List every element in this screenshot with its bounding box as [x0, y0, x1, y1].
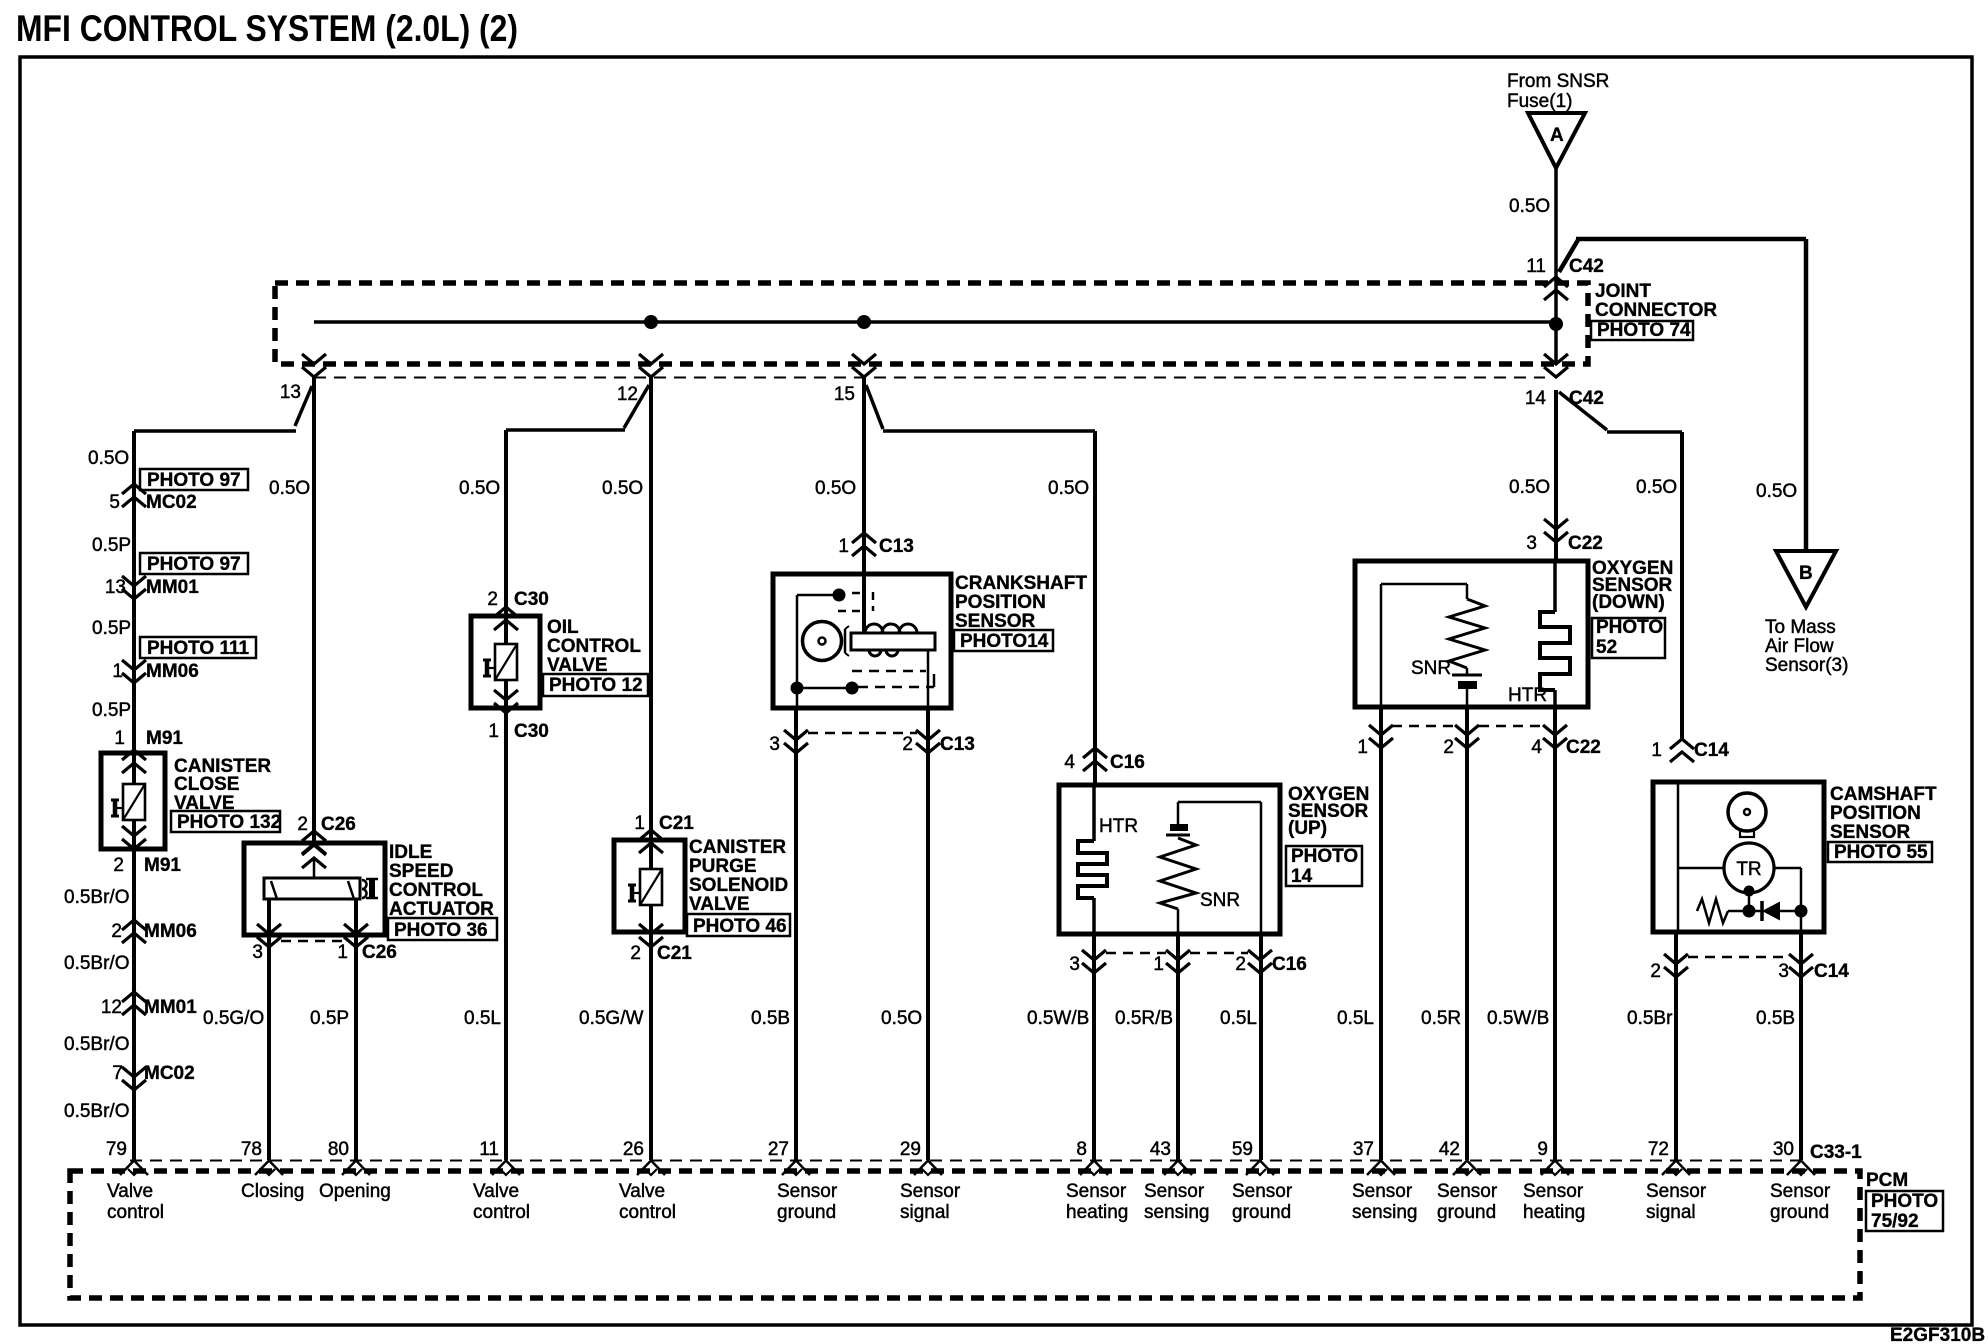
- oxygen sensor (up) box: [1059, 785, 1280, 934]
- svg-text:30: 30: [1773, 1139, 1794, 1160]
- wire pin 12 down to canister purge valve and PCM pin 26: [649, 377, 653, 1160]
- junction dot at pin 15 tap: [857, 315, 871, 329]
- svg-text:JOINT: JOINT: [1595, 281, 1651, 302]
- svg-text:72: 72: [1648, 1139, 1669, 1160]
- svg-text:CAMSHAFT: CAMSHAFT: [1830, 784, 1937, 805]
- wire C16 pin 2 to PCM pin 59: [1259, 934, 1263, 1160]
- connector MM06 pin 2: [111, 920, 196, 943]
- label 0.5O (oxygen down wire): [1509, 477, 1550, 498]
- svg-text:(DOWN): (DOWN): [1592, 592, 1665, 613]
- label 0.5W/B (oxygen down heater): [1487, 1008, 1549, 1029]
- svg-text:MM01: MM01: [146, 577, 199, 598]
- junction dot at C42 pin 11/14: [1549, 317, 1563, 331]
- connector pin 12: [617, 354, 663, 405]
- idle actuator inner chevron: [302, 845, 326, 868]
- svg-text:Sensor: Sensor: [777, 1181, 838, 1202]
- svg-text:IDLE: IDLE: [389, 842, 432, 863]
- svg-text:A: A: [1550, 125, 1564, 146]
- label 0.5L (oxygen up ground): [1220, 1008, 1257, 1029]
- svg-text:42: 42: [1439, 1139, 1460, 1160]
- wire from node A to connector C42 pin 11: [1554, 168, 1558, 364]
- svg-text:SENSOR: SENSOR: [1830, 822, 1911, 843]
- svg-text:1: 1: [114, 728, 125, 749]
- svg-text:14: 14: [1525, 388, 1547, 409]
- camshaft sensor inner wire left: [1678, 782, 1724, 932]
- svg-text:Sensor(3): Sensor(3): [1765, 655, 1848, 676]
- svg-text:0.5G/O: 0.5G/O: [203, 1008, 264, 1029]
- svg-text:Sensor: Sensor: [1232, 1181, 1293, 1202]
- label 0.5Br: [1627, 1008, 1673, 1029]
- svg-text:0.5Br: 0.5Br: [1627, 1008, 1673, 1029]
- svg-text:Valve: Valve: [619, 1181, 665, 1202]
- camshaft sensor toothed wheel: [1728, 793, 1766, 837]
- svg-text:78: 78: [241, 1139, 262, 1160]
- oxygen sensor (up) label: [1286, 784, 1369, 887]
- label 0.5P (2): [92, 618, 131, 639]
- svg-text:C22: C22: [1566, 737, 1601, 758]
- svg-text:37: 37: [1353, 1139, 1374, 1160]
- wire C16 pin 3 to PCM pin 8: [1092, 934, 1096, 1160]
- wire C26 pin 3 to PCM pin 78: [267, 899, 271, 1160]
- svg-text:2: 2: [113, 855, 124, 876]
- svg-text:Sensor: Sensor: [1144, 1181, 1205, 1202]
- svg-text:CRANKSHAFT: CRANKSHAFT: [955, 573, 1087, 594]
- svg-text:ground: ground: [1232, 1202, 1291, 1223]
- svg-text:0.5W/B: 0.5W/B: [1487, 1008, 1549, 1029]
- connector C16 pin 4: [1064, 748, 1144, 773]
- svg-text:C16: C16: [1272, 954, 1307, 975]
- label 0.5W/B (heater): [1027, 1008, 1089, 1029]
- svg-text:C30: C30: [514, 721, 549, 742]
- svg-text:1: 1: [337, 942, 348, 963]
- connector C26 pin 1: [337, 924, 396, 963]
- idle actuator inner wire: [313, 858, 316, 878]
- connector C26 pin 2: [297, 814, 355, 854]
- svg-text:C16: C16: [1110, 752, 1145, 773]
- svg-text:PCM: PCM: [1866, 1170, 1908, 1191]
- PCM pin 78 (Closing): [241, 1139, 305, 1202]
- connector C14 pin 1: [1651, 739, 1729, 762]
- svg-text:Sensor: Sensor: [900, 1181, 961, 1202]
- svg-text:From SNSR: From SNSR: [1507, 71, 1609, 92]
- svg-text:26: 26: [623, 1139, 644, 1160]
- wire pin 15 to oxygen sensor (up): [866, 385, 1095, 785]
- PCM dashed box: [70, 1171, 1860, 1298]
- camshaft sensor diode: [1762, 901, 1801, 921]
- svg-text:9: 9: [1537, 1139, 1548, 1160]
- svg-text:Sensor: Sensor: [1646, 1181, 1707, 1202]
- connector pin 15: [834, 354, 876, 405]
- svg-text:Sensor: Sensor: [1352, 1181, 1413, 1202]
- svg-text:75/92: 75/92: [1871, 1211, 1919, 1232]
- svg-text:12: 12: [101, 997, 122, 1018]
- svg-text:ground: ground: [777, 1202, 836, 1223]
- svg-text:7: 7: [112, 1063, 123, 1084]
- svg-text:PHOTO 132: PHOTO 132: [177, 812, 281, 833]
- svg-text:2: 2: [1650, 961, 1661, 982]
- svg-text:PHOTO: PHOTO: [1596, 617, 1663, 638]
- label 0.5O (crankshaft wire): [815, 478, 856, 499]
- idle actuator inner wires to pins: [269, 899, 356, 935]
- svg-text:0.5P: 0.5P: [92, 618, 131, 639]
- svg-text:2: 2: [902, 734, 913, 755]
- connector C16 pin 1: [1153, 950, 1190, 975]
- connector C22 pin 1: [1357, 725, 1393, 758]
- label 0.5B (camshaft ground): [1756, 1008, 1795, 1029]
- PCM pin 27 (Sensor ground): [768, 1139, 838, 1223]
- label 0.5L (oxygen down sensing): [1337, 1008, 1374, 1029]
- label 0.5B (sensor ground): [751, 1008, 790, 1029]
- camshaft sensor transistor TR: [1724, 843, 1774, 893]
- svg-text:52: 52: [1596, 637, 1617, 658]
- connector C16 pins dashed link: [1106, 952, 1248, 955]
- connector C30 pin 1: [488, 721, 548, 742]
- svg-text:B: B: [1799, 563, 1813, 584]
- svg-text:12: 12: [617, 384, 638, 405]
- oil control valve label: [543, 617, 648, 696]
- svg-text:heating: heating: [1523, 1202, 1585, 1223]
- camshaft sensor inner wire right: [1774, 868, 1801, 932]
- label PHOTO 97 (MM01): [140, 553, 248, 575]
- svg-text:PHOTO 12: PHOTO 12: [549, 675, 643, 696]
- crankshaft sensor inner wires: [797, 595, 852, 708]
- svg-text:1: 1: [112, 661, 123, 682]
- svg-text:0.5Br/O: 0.5Br/O: [64, 1034, 129, 1055]
- svg-text:1: 1: [1153, 954, 1164, 975]
- idle actuator motor symbol: [264, 878, 378, 899]
- PCM pin 29 (Sensor signal): [900, 1139, 961, 1223]
- svg-text:control: control: [107, 1202, 164, 1223]
- connector C42 pin 14: [1525, 354, 1604, 409]
- connector C33-1 label: [1810, 1142, 1862, 1163]
- label 0.5R: [1421, 1008, 1461, 1029]
- connector MC02 pin 7: [112, 1063, 194, 1090]
- svg-text:SNR: SNR: [1411, 658, 1451, 679]
- label 0.5R/B: [1115, 1008, 1173, 1029]
- svg-text:1: 1: [634, 813, 645, 834]
- connector C26 pin 3: [252, 924, 281, 963]
- svg-text:0.5O: 0.5O: [602, 478, 643, 499]
- svg-text:C42: C42: [1569, 256, 1604, 277]
- connector C30 pin 2: [487, 589, 548, 630]
- svg-text:0.5O: 0.5O: [881, 1008, 922, 1029]
- camshaft sensor dot at TR base: [1744, 886, 1755, 897]
- svg-text:signal: signal: [900, 1202, 950, 1223]
- svg-text:0.5R/B: 0.5R/B: [1115, 1008, 1173, 1029]
- svg-text:OIL: OIL: [547, 617, 579, 638]
- crankshaft position sensor label: [954, 573, 1087, 652]
- svg-text:3: 3: [252, 942, 263, 963]
- wire oil control valve to PCM pin 11: [504, 430, 508, 1160]
- svg-text:control: control: [619, 1202, 676, 1223]
- oxygen sensor (up) sensing element SNR: [1160, 802, 1261, 934]
- wire C13 pin 3 to PCM pin 27: [794, 708, 798, 1160]
- svg-text:1: 1: [1357, 737, 1368, 758]
- svg-text:C22: C22: [1568, 533, 1603, 554]
- svg-text:C13: C13: [940, 734, 975, 755]
- connector C42 pin 11: [1526, 256, 1604, 300]
- svg-text:0.5P: 0.5P: [92, 700, 131, 721]
- svg-text:0.5O: 0.5O: [1509, 196, 1550, 217]
- svg-text:0.5B: 0.5B: [751, 1008, 790, 1029]
- svg-text:43: 43: [1150, 1139, 1171, 1160]
- connector MC02 pin 5: [109, 484, 196, 513]
- svg-text:PHOTO: PHOTO: [1291, 846, 1358, 867]
- svg-text:0.5O: 0.5O: [1756, 481, 1797, 502]
- svg-text:Sensor: Sensor: [1066, 1181, 1127, 1202]
- PCM thin dashed line: [130, 1160, 1805, 1162]
- canister close valve M91 box: [101, 753, 165, 849]
- svg-text:CANISTER: CANISTER: [689, 837, 786, 858]
- PCM pin 59 (Sensor ground): [1232, 1139, 1293, 1223]
- wire C42 pin 14 to camshaft sensor: [1559, 392, 1682, 739]
- wire C22 pin 2 to PCM pin 42: [1465, 707, 1469, 1160]
- wire C22 pin 4 to PCM pin 9: [1553, 707, 1557, 1160]
- svg-text:0.5R: 0.5R: [1421, 1008, 1461, 1029]
- svg-text:C14: C14: [1694, 740, 1729, 761]
- wire pin 12 to oil control valve: [506, 385, 649, 430]
- PCM pin 9 (Sensor heating): [1523, 1139, 1585, 1223]
- PCM pin 42 (Sensor ground): [1437, 1139, 1498, 1223]
- svg-text:2: 2: [1235, 954, 1246, 975]
- label 0.5O (oil valve wire): [459, 478, 500, 499]
- svg-text:POSITION: POSITION: [955, 592, 1046, 613]
- svg-text:Valve: Valve: [107, 1181, 153, 1202]
- svg-text:Sensor: Sensor: [1770, 1181, 1831, 1202]
- svg-text:PURGE: PURGE: [689, 856, 757, 877]
- svg-text:2: 2: [630, 943, 641, 964]
- svg-text:C33-1: C33-1: [1810, 1142, 1862, 1163]
- idle speed control actuator box: [244, 843, 385, 935]
- svg-text:heating: heating: [1066, 1202, 1128, 1223]
- joint connector bus wire: [314, 320, 1556, 324]
- svg-text:0.5O: 0.5O: [269, 478, 310, 499]
- junction dot at pin 12 tap: [644, 315, 658, 329]
- connector M91 pin 1: [114, 728, 183, 773]
- connector C16 pin 3: [1069, 950, 1106, 975]
- wire C13 pin 2 to PCM pin 29: [926, 708, 930, 1160]
- svg-text:MC02: MC02: [146, 492, 197, 513]
- svg-text:PHOTO 111: PHOTO 111: [147, 638, 250, 659]
- node B label To Mass Air Flow Sensor(3): [1765, 617, 1848, 676]
- svg-text:1: 1: [1651, 740, 1662, 761]
- oxygen sensor (down) sensing element SNR: [1381, 584, 1485, 707]
- svg-text:SPEED: SPEED: [389, 861, 453, 882]
- svg-text:PHOTO 46: PHOTO 46: [693, 916, 787, 937]
- joint connector dashed box: [275, 283, 1588, 364]
- label 0.5P (3): [92, 700, 131, 721]
- svg-text:sensing: sensing: [1144, 1202, 1210, 1223]
- wire branch to node B: [1559, 239, 1806, 551]
- svg-text:C26: C26: [321, 814, 356, 835]
- crankshaft sensor dashed lines lower: [852, 671, 934, 687]
- svg-text:3: 3: [1069, 954, 1080, 975]
- svg-text:signal: signal: [1646, 1202, 1696, 1223]
- svg-text:MC02: MC02: [144, 1063, 195, 1084]
- label 0.5O (B wire): [1756, 481, 1797, 502]
- svg-text:0.5G/W: 0.5G/W: [579, 1008, 643, 1029]
- wire pin 13 to left column: [134, 386, 312, 484]
- wire left column (canister close valve circuit): [132, 431, 136, 1160]
- svg-text:3: 3: [1526, 533, 1537, 554]
- connector C26 pins 3 and 1 dashed link: [281, 940, 344, 943]
- PCM pin 26 (Valve control): [619, 1139, 676, 1223]
- joint connector label: [1591, 281, 1717, 341]
- svg-text:M91: M91: [144, 855, 181, 876]
- label 0.5Br/O (1): [64, 887, 129, 908]
- svg-text:SOLENOID: SOLENOID: [689, 875, 788, 896]
- connector C16 pin 2: [1235, 950, 1306, 975]
- connector C22 pins dashed link: [1392, 725, 1543, 728]
- svg-text:To Mass: To Mass: [1765, 617, 1836, 638]
- svg-text:Sensor: Sensor: [1523, 1181, 1584, 1202]
- connector C13 pin 1: [838, 533, 913, 557]
- camshaft sensor wire TR to junction: [1748, 891, 1751, 911]
- svg-text:2: 2: [1443, 737, 1454, 758]
- svg-text:ground: ground: [1437, 1202, 1496, 1223]
- svg-text:13: 13: [105, 577, 126, 598]
- svg-text:C21: C21: [657, 943, 692, 964]
- wire C14 pin 2 to PCM pin 72: [1674, 932, 1678, 1160]
- svg-text:29: 29: [900, 1139, 921, 1160]
- label 0.5Br/O (2): [64, 953, 129, 974]
- label 0.5O (sensor signal): [881, 1008, 922, 1029]
- canister close valve label: [171, 756, 281, 833]
- PCM pin 80 (Opening): [319, 1139, 391, 1202]
- svg-text:Fuse(1): Fuse(1): [1507, 91, 1572, 112]
- connector C22 pin 2: [1443, 725, 1479, 758]
- svg-text:Air Flow: Air Flow: [1765, 636, 1834, 657]
- svg-text:2: 2: [487, 589, 498, 610]
- svg-text:sensing: sensing: [1352, 1202, 1418, 1223]
- svg-text:0.5L: 0.5L: [1337, 1008, 1374, 1029]
- connector C13 pin 2: [902, 730, 974, 755]
- svg-text:15: 15: [834, 384, 855, 405]
- diagram code E2GF310B: [1890, 1325, 1985, 1344]
- node A label From SNSR Fuse(1): [1507, 71, 1609, 112]
- camshaft sensor wire resistor line: [1728, 910, 1762, 913]
- svg-text:59: 59: [1232, 1139, 1253, 1160]
- canister close valve solenoid symbol: [111, 784, 145, 820]
- connector MM01 pin 13: [105, 576, 199, 599]
- connector C14 pin 3: [1778, 954, 1849, 982]
- svg-text:0.5Br/O: 0.5Br/O: [64, 953, 129, 974]
- label 0.5G/O: [203, 1008, 264, 1029]
- svg-text:MM06: MM06: [144, 921, 197, 942]
- svg-text:27: 27: [768, 1139, 789, 1160]
- svg-text:0.5B: 0.5B: [1756, 1008, 1795, 1029]
- svg-text:PHOTO 97: PHOTO 97: [147, 554, 241, 575]
- label 0.5L (oil valve wire): [464, 1008, 501, 1029]
- PCM pin 30 (Sensor ground): [1770, 1139, 1831, 1223]
- crankshaft sensor junction dot lower mid: [846, 682, 859, 695]
- svg-text:3: 3: [769, 734, 780, 755]
- oxygen sensor (down) heater HTR: [1508, 561, 1570, 707]
- svg-text:0.5O: 0.5O: [1509, 477, 1550, 498]
- svg-text:0.5P: 0.5P: [92, 535, 131, 556]
- PCM pin 43 (Sensor sensing): [1144, 1139, 1210, 1223]
- svg-text:4: 4: [1064, 752, 1075, 773]
- label 0.5O (left column): [88, 448, 129, 469]
- svg-text:4: 4: [1531, 737, 1542, 758]
- svg-text:8: 8: [1076, 1139, 1087, 1160]
- svg-text:PHOTO 55: PHOTO 55: [1834, 842, 1928, 863]
- label 0.5O (oxygen up heater wire): [1048, 478, 1089, 499]
- label PHOTO 111 (MM06): [140, 637, 256, 659]
- svg-text:PHOTO: PHOTO: [1871, 1191, 1938, 1212]
- canister purge valve solenoid symbol: [628, 869, 662, 905]
- svg-text:0.5L: 0.5L: [1220, 1008, 1257, 1029]
- svg-text:0.5Br/O: 0.5Br/O: [64, 1101, 129, 1122]
- label 0.5O (camshaft wire): [1636, 477, 1677, 498]
- svg-text:C26: C26: [362, 942, 397, 963]
- crankshaft sensor junction dot upper: [833, 589, 846, 602]
- idle speed control actuator label: [388, 842, 497, 941]
- label 0.5G/W: [579, 1008, 643, 1029]
- node B (triangle to mass air flow sensor): [1776, 551, 1836, 607]
- PCM pin 72 (Sensor signal): [1646, 1139, 1707, 1223]
- oxygen sensor (up) heater HTR: [1078, 785, 1138, 934]
- svg-text:TR: TR: [1736, 859, 1761, 880]
- title: [16, 8, 518, 49]
- label 0.5O (A wire): [1509, 196, 1550, 217]
- camshaft position sensor label: [1828, 784, 1937, 863]
- canister purge solenoid valve label: [687, 837, 790, 937]
- svg-text:CONTROL: CONTROL: [389, 880, 483, 901]
- svg-text:0.5O: 0.5O: [1636, 477, 1677, 498]
- svg-text:5: 5: [109, 492, 120, 513]
- svg-text:11: 11: [479, 1139, 499, 1160]
- svg-text:0.5O: 0.5O: [88, 448, 129, 469]
- label 0.5P (1): [92, 535, 131, 556]
- svg-text:HTR: HTR: [1099, 816, 1138, 837]
- wire pin 15 down to crankshaft sensor: [862, 377, 866, 633]
- connector MM01 pin 12: [101, 992, 197, 1018]
- crankshaft sensor junction dot lower left: [791, 682, 804, 695]
- svg-text:C30: C30: [514, 589, 549, 610]
- svg-text:Closing: Closing: [241, 1181, 304, 1202]
- label 0.5O (idle actuator wire): [269, 478, 310, 499]
- PCM pin 11 (Valve control): [473, 1139, 530, 1223]
- svg-text:2: 2: [297, 814, 308, 835]
- wire C14 pin 3 to PCM pin 30: [1799, 932, 1803, 1160]
- label PHOTO 97 (MC02): [140, 469, 248, 491]
- crankshaft sensor toothed wheel: [803, 622, 850, 661]
- svg-text:11: 11: [1526, 256, 1546, 277]
- connector C21 pin 1: [634, 813, 694, 853]
- wire C16 pin 1 to PCM pin 43: [1176, 934, 1180, 1160]
- svg-text:1: 1: [488, 721, 499, 742]
- svg-text:0.5O: 0.5O: [815, 478, 856, 499]
- svg-text:CLOSE: CLOSE: [174, 774, 239, 795]
- svg-text:C21: C21: [659, 813, 694, 834]
- connector C21 pin 2: [630, 943, 692, 964]
- svg-text:E2GF310B: E2GF310B: [1890, 1325, 1985, 1344]
- svg-text:(UP): (UP): [1288, 818, 1327, 839]
- crankshaft position sensor box: [773, 574, 951, 708]
- wire pin 13 down to idle speed actuator: [312, 377, 316, 843]
- svg-text:3: 3: [1778, 961, 1789, 982]
- PCM pin 37 (Sensor sensing): [1352, 1139, 1418, 1223]
- svg-text:Valve: Valve: [473, 1181, 519, 1202]
- oil control valve solenoid symbol: [483, 644, 517, 680]
- label 0.5Br/O (4): [64, 1101, 129, 1122]
- svg-text:PHOTO14: PHOTO14: [960, 631, 1049, 652]
- wire C42 pin 14 down to oxygen sensor (down): [1554, 390, 1558, 561]
- svg-text:0.5Br/O: 0.5Br/O: [64, 887, 129, 908]
- svg-text:0.5O: 0.5O: [1048, 478, 1089, 499]
- crankshaft sensor coil output wire: [927, 650, 930, 708]
